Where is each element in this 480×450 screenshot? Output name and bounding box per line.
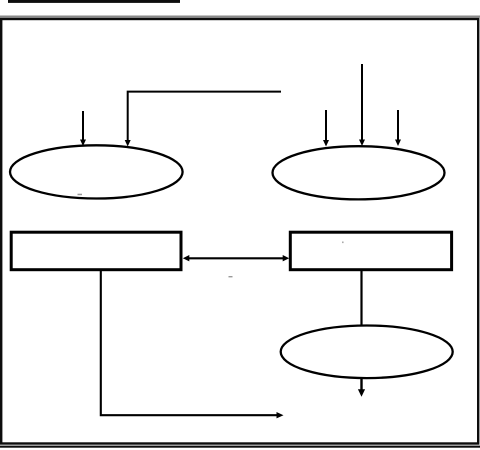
speck artifact below double arrow [229, 276, 233, 277]
wire: right box down to bottom oval [360, 270, 362, 326]
arrow: output below bottom oval [358, 377, 365, 397]
rectangle: right process box [290, 232, 451, 270]
bottom full-width rule [0, 446, 480, 448]
ellipse: top-left oval [10, 145, 183, 198]
speck artifact inside top-left oval [78, 194, 83, 196]
arrow: right input into top-right oval [395, 110, 401, 146]
title underline (top partial rule) [8, 0, 180, 3]
wire: elbow from left box to arrow at bottom [101, 270, 284, 418]
ellipse: bottom-right oval [281, 326, 453, 379]
arrow: short input into top-left oval [80, 111, 86, 146]
wire: elbow feed line into top-left oval [125, 92, 281, 147]
ellipse: top-right oval [273, 146, 445, 199]
arrow: double-headed link between boxes [183, 255, 289, 261]
rectangle: left process box [11, 232, 181, 270]
gray rule above frame [0, 16, 480, 18]
speck artifact inside right box [342, 242, 344, 244]
arrow: middle long input into top-right oval [359, 64, 365, 146]
arrow: left input into top-right oval [323, 110, 329, 147]
